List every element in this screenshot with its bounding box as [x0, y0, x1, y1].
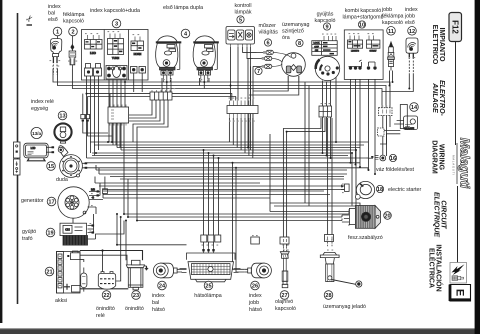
svg-text:electric starter: electric starter [388, 187, 421, 193]
svg-text:2: 2 [71, 30, 74, 36]
svg-text:index: index [48, 4, 61, 10]
svg-text:11: 11 [388, 29, 394, 35]
svg-text:8: 8 [298, 41, 301, 47]
lamps 7 műszer világítás [253, 50, 291, 68]
svg-text:egység: egység [31, 106, 48, 112]
wire bus h13-h20 [110, 176, 344, 178]
page frame: right black bar [475, 0, 480, 334]
sender 28 üzemanyag jeladó [320, 242, 362, 287]
wire comp27 routed feeds [283, 118, 321, 247]
table B [108, 39, 124, 55]
wire bus h5-h7 [92, 152, 352, 154]
svg-text:hátsólámpa: hátsólámpa [194, 293, 221, 299]
lamp 1 index bal első [51, 36, 62, 75]
E box [450, 285, 471, 302]
table C [131, 41, 144, 51]
svg-text:24: 24 [159, 284, 166, 290]
table A [85, 40, 103, 50]
wire right bulb extra pins [200, 78, 210, 86]
svg-text:27: 27 [281, 293, 287, 299]
connector block left [108, 105, 129, 126]
wire comp3 left group drops [86, 76, 88, 158]
unit 3 index kapcsoló+duda box [82, 30, 149, 81]
wire coil links [94, 214, 125, 239]
wire bus lower right [270, 203, 360, 206]
wire comp24 feed [180, 269, 187, 272]
svg-text:index kapcsoló+duda: index kapcsoló+duda [90, 8, 140, 14]
svg-text:MALAGUTI: MALAGUTI [452, 155, 456, 176]
wire bus h1-h4 [90, 141, 368, 143]
left border legend box 2 [14, 159, 21, 175]
svg-text:3: 3 [115, 22, 118, 28]
svg-text:HORN: HORN [134, 52, 142, 56]
fold/scissors mark top-left [23, 12, 36, 26]
unit 5 kontroll lámpák [226, 27, 255, 48]
svg-text:CDI: CDI [65, 227, 70, 231]
relay 22 önindító relé [98, 272, 115, 290]
wire comp28 drops [328, 118, 332, 242]
svg-text:9: 9 [325, 25, 328, 31]
wire comp14 pin links [384, 131, 400, 157]
svg-text:világítás: világítás [259, 30, 279, 36]
switch 9 gyújtás kapcsoló [312, 36, 340, 81]
svg-text:kapcsoló: kapcsoló [275, 306, 296, 312]
svg-text:14: 14 [411, 105, 418, 111]
switch 2 féklámpa kapcsoló [69, 36, 76, 69]
svg-text:féklámpa: féklámpa [382, 14, 404, 20]
coil 19 gyújtó trafó [60, 223, 96, 245]
svg-text:első: első [48, 17, 58, 23]
svg-text:ELETTRICO: ELETTRICO [431, 25, 438, 65]
wire comp12 leads join bus [382, 74, 413, 92]
wire mid pair drops [305, 82, 309, 206]
connector row1 [150, 90, 172, 100]
svg-text:13: 13 [59, 114, 65, 120]
svg-text:generátor: generátor [21, 198, 44, 204]
svg-text:fesz.szabályzó: fesz.szabályzó [348, 235, 383, 241]
bottom connector cluster [85, 68, 93, 76]
lamp 12 index jobb első [406, 38, 418, 74]
svg-text:18: 18 [377, 187, 383, 193]
svg-text:ELEKTRO-: ELEKTRO- [438, 80, 445, 116]
wire block pins down [112, 123, 124, 214]
svg-text:7: 7 [257, 69, 260, 75]
svg-text:önindító: önindító [125, 306, 144, 312]
page frame: left black strip [0, 0, 2, 323]
svg-text:hátsó: hátsó [152, 307, 165, 313]
svg-text:index relé: index relé [31, 99, 54, 105]
wire comp3 right group drops [134, 73, 143, 92]
starter ring 18 electric starter [341, 181, 375, 199]
wire comp2 lead to top bus C [72, 69, 382, 108]
svg-text:10: 10 [359, 23, 365, 29]
gauge 8 üzemanyag szintjelző óra [282, 53, 306, 82]
wire comp1 lead B to top bus B [58, 69, 387, 108]
svg-text:lámpa+startgomb: lámpa+startgomb [342, 15, 383, 21]
connector row2 [227, 101, 258, 119]
svg-text:ELECTRIQUE: ELECTRIQUE [433, 192, 440, 237]
wire bulb base stubs [163, 75, 208, 82]
svg-text:kapcsoló: kapcsoló [382, 20, 403, 26]
svg-text:IMPIANTO: IMPIANTO [438, 27, 445, 62]
diagram left border line [17, 13, 19, 304]
svg-text:12: 12 [409, 29, 415, 35]
svg-text:gyújtás: gyújtás [317, 12, 334, 18]
connector right top dashed [379, 108, 393, 116]
svg-text:ON: ON [315, 50, 319, 52]
svg-text:26: 26 [252, 284, 258, 290]
svg-text:féklámpa: féklámpa [63, 12, 85, 18]
svg-text:bal: bal [152, 300, 159, 306]
left border legend box 1 [14, 142, 21, 158]
switch 11 jobb féklámpa kapcsoló [388, 42, 395, 71]
wire comp1 lead A to top bus A [53, 69, 390, 108]
svg-text:relé: relé [96, 313, 105, 319]
svg-text:váz földelés/test: váz földelés/test [376, 167, 415, 173]
svg-text:hátsó: hátsó [249, 307, 262, 313]
svg-text:17: 17 [48, 200, 54, 206]
pin label specks [50, 31, 416, 251]
wire comp11 drops [390, 71, 393, 86]
headlamp 4 right bulb [193, 36, 219, 82]
wire ignition drops [323, 75, 337, 158]
svg-text:CIRCUIT: CIRCUIT [440, 200, 447, 229]
unit 10 kombi kapcsoló [344, 30, 383, 80]
spark icon box [450, 263, 467, 284]
svg-text:1: 1 [56, 30, 59, 36]
battery 21 akksi [57, 251, 87, 293]
wire comp10 drops [351, 79, 376, 174]
svg-text:LCD: LCD [31, 147, 36, 150]
wire comp5 drops [231, 47, 251, 101]
wire regulator feeds [342, 212, 349, 221]
lamp 26 index jobb hátsó [245, 263, 272, 278]
wire generator links [100, 183, 103, 198]
relay 13 index relé egység [54, 115, 89, 144]
svg-text:első lámpa dupla: első lámpa dupla [163, 5, 203, 11]
svg-text:index: index [249, 293, 262, 299]
svg-text:28: 28 [325, 293, 331, 299]
wire bus h8-h12 [87, 162, 360, 164]
wire headlamp stems [167, 82, 205, 92]
svg-text:műszer: műszer [259, 23, 277, 29]
svg-text:START: START [370, 50, 378, 53]
svg-text:ELÉCTRICA: ELÉCTRICA [428, 248, 437, 288]
wire comp8 stubs [288, 76, 299, 82]
svg-text:LIGHTS: LIGHTS [351, 51, 359, 53]
svg-text:index: index [152, 293, 165, 299]
svg-text:20: 20 [384, 214, 390, 220]
svg-text:jobb: jobb [404, 14, 415, 20]
svg-text:trafó: trafó [22, 236, 33, 242]
svg-text:kapcsoló: kapcsoló [63, 19, 84, 25]
svg-text:23: 23 [133, 293, 139, 299]
svg-text:kontroll: kontroll [234, 3, 251, 9]
wire bus lower left [124, 213, 349, 215]
svg-text:5: 5 [239, 18, 242, 24]
svg-text:B/R: B/R [91, 189, 95, 192]
svg-text:index: index [405, 7, 418, 13]
svg-text:jobb: jobb [248, 300, 259, 306]
svg-text:WIRING: WIRING [438, 144, 445, 171]
svg-text:F12: F12 [451, 20, 460, 34]
svg-text:üzemanyag jeladó: üzemanyag jeladó [323, 304, 366, 310]
svg-text:bal: bal [48, 11, 55, 17]
switch 27 olajnívó kapcsoló [280, 247, 289, 288]
svg-text:olajnívó: olajnívó [275, 299, 293, 305]
wire ground16 feed [367, 157, 369, 159]
wire gauge bends [249, 82, 299, 95]
headlamp 4 left bulb [156, 36, 182, 82]
wire relay feed [102, 251, 104, 272]
svg-text:önindító: önindító [96, 306, 115, 312]
wire rear bracket feed [117, 214, 187, 245]
page frame: bottom dark bar [0, 328, 480, 329]
wire starter18 feeds [343, 186, 345, 190]
svg-text:kombi kapcsoló: kombi kapcsoló [345, 8, 382, 14]
svg-text:szintjelző: szintjelző [282, 29, 304, 35]
svg-text:22: 22 [103, 293, 109, 299]
svg-text:13/a: 13/a [32, 131, 41, 136]
svg-text:akksi: akksi [55, 298, 67, 304]
starter motor 23 önindító [126, 260, 148, 290]
svg-text:üzemanyag: üzemanyag [282, 22, 309, 28]
wire comp7 bundle [248, 58, 253, 153]
svg-text:ANLAGE: ANLAGE [431, 82, 438, 113]
wire comp13 links [83, 122, 112, 137]
wire cascade u-turns [129, 100, 152, 115]
svg-text:lámpák: lámpák [234, 10, 251, 16]
Malaguti logo [452, 138, 472, 189]
svg-text:E: E [454, 289, 466, 296]
svg-text:MALAGUTI: MALAGUTI [404, 127, 415, 130]
connector row3 [319, 106, 332, 117]
svg-text:óra: óra [282, 35, 290, 41]
svg-text:19: 19 [47, 231, 53, 237]
svg-text:DIAGRAM: DIAGRAM [431, 140, 438, 174]
svg-text:6: 6 [266, 41, 269, 47]
svg-text:Malaguti: Malaguti [458, 138, 472, 189]
rear lamp 25 hátsólámpa [180, 247, 241, 282]
svg-text:OFF: OFF [314, 46, 319, 48]
wire battery feed [80, 251, 143, 261]
svg-text:első: első [405, 20, 415, 26]
F12 tab box [449, 13, 462, 42]
svg-text:jobb: jobb [381, 7, 392, 13]
wire rear-lamp bundle [204, 150, 219, 247]
unit 14 [394, 105, 418, 130]
connector boxes rear bundle [201, 235, 334, 245]
wire relay right loop [116, 217, 121, 281]
wire row2 drops [229, 118, 252, 158]
svg-text:TURN: TURN [112, 56, 119, 60]
connector comp14 dashed [378, 128, 385, 136]
horn 15 duda [58, 146, 87, 178]
wire right connector drops [380, 116, 390, 156]
generator 17 [58, 183, 108, 218]
svg-text:15: 15 [48, 164, 54, 170]
wire comp3 mid group drops [109, 80, 125, 151]
svg-text:ILKO: ILKO [90, 51, 96, 55]
svg-text:16: 16 [390, 156, 396, 162]
svg-text:INSTALACIÓN: INSTALACIÓN [435, 244, 444, 291]
svg-text:G: G [92, 197, 94, 200]
svg-text:LOCK: LOCK [314, 43, 320, 45]
wire comp26 feeds [233, 163, 245, 272]
lamp 24 index bal hátsó [153, 263, 180, 278]
wire left bulb drops to row1 [162, 78, 171, 92]
wire starter arrow feed [144, 265, 146, 267]
svg-text:21: 21 [46, 270, 52, 276]
wire starter flange feed [80, 255, 127, 265]
svg-text:gyújtó: gyújtó [22, 229, 36, 235]
svg-text:25: 25 [205, 284, 211, 290]
ground 16 váz földelés [368, 155, 386, 161]
svg-text:duda: duda [56, 177, 68, 183]
unit 13/a LCD [24, 143, 54, 161]
regulator 20 fesz.szabályzó [342, 206, 381, 229]
sidebar vertical line [456, 42, 458, 264]
